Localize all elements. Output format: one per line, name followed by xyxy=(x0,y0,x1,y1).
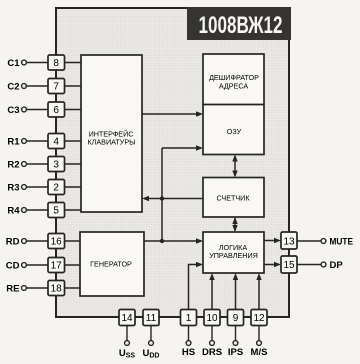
pin 1 / HS xyxy=(181,310,197,359)
pin 2 / R3 xyxy=(7,180,81,195)
svg-text:C3: C3 xyxy=(7,105,19,116)
wire: clock vertical riser x=162 xyxy=(161,148,163,241)
pin 7 / C2 xyxy=(7,79,81,94)
svg-text:СЧЕТЧИК: СЧЕТЧИК xyxy=(216,194,250,203)
svg-text:13: 13 xyxy=(283,237,295,248)
svg-text:7: 7 xyxy=(53,82,59,93)
svg-text:УПРАВЛЕНИЯ: УПРАВЛЕНИЯ xyxy=(209,251,258,260)
pin 6 / C3 xyxy=(7,102,81,117)
pin 5 / R4 xyxy=(7,203,81,218)
wire: pin 9 to control logic xyxy=(233,273,238,310)
svg-text:18: 18 xyxy=(51,284,63,295)
svg-text:9: 9 xyxy=(233,313,239,324)
IC title box 1008ВЖ12 xyxy=(187,7,291,40)
junction dot at riser/generator line xyxy=(160,239,164,243)
svg-text:АДРЕСА: АДРЕСА xyxy=(219,82,249,91)
svg-text:R2: R2 xyxy=(7,160,19,171)
svg-text:ОЗУ: ОЗУ xyxy=(227,127,242,136)
svg-text:C2: C2 xyxy=(7,82,19,93)
svg-text:CD: CD xyxy=(6,261,20,272)
svg-text:USS: USS xyxy=(119,348,136,360)
svg-text:1008ВЖ12: 1008ВЖ12 xyxy=(199,12,283,39)
svg-text:M/S: M/S xyxy=(251,347,268,358)
svg-text:11: 11 xyxy=(146,313,157,324)
svg-text:UDD: UDD xyxy=(143,348,160,360)
wire: control logic to pin 13 xyxy=(264,238,281,243)
block: control logic xyxy=(203,232,264,273)
svg-text:MUTE: MUTE xyxy=(330,237,354,248)
svg-text:3: 3 xyxy=(53,160,59,171)
wire: pin 12 to control logic xyxy=(256,273,261,310)
pin 12 / M/S xyxy=(251,310,268,359)
junction dot at riser/counter line xyxy=(160,196,164,200)
svg-text:10: 10 xyxy=(206,313,218,324)
pin 14 / Uss xyxy=(119,310,136,360)
svg-text:RD: RD xyxy=(6,237,20,248)
svg-text:6: 6 xyxy=(53,105,59,116)
svg-text:ГЕНЕРАТОР: ГЕНЕРАТОР xyxy=(90,260,132,269)
wire: riser to RAM xyxy=(162,145,203,150)
pin 4 / R1 xyxy=(7,134,81,149)
svg-text:R1: R1 xyxy=(7,137,20,148)
pin 18 / RE xyxy=(6,281,80,296)
block: generator xyxy=(80,232,144,296)
pin 10 / DRS xyxy=(202,310,222,359)
svg-text:IPS: IPS xyxy=(228,347,243,358)
svg-text:C1: C1 xyxy=(7,58,20,69)
svg-text:HS: HS xyxy=(182,347,195,358)
pin 15 / DP xyxy=(281,256,343,273)
svg-text:14: 14 xyxy=(121,313,133,324)
wire: counter to interface xyxy=(142,196,203,201)
wire: generator to control logic xyxy=(144,238,203,243)
wire: pin 10 to control logic xyxy=(209,273,214,310)
svg-text:16: 16 xyxy=(51,237,63,248)
pin 13 / MUTE xyxy=(281,232,353,249)
svg-text:R4: R4 xyxy=(7,206,20,217)
pin 3 / R2 xyxy=(7,157,81,172)
wire: pin 1 to control logic xyxy=(189,262,204,310)
svg-text:RE: RE xyxy=(6,284,19,295)
pin 17 / CD xyxy=(6,258,80,273)
wire: control logic to pin 15 xyxy=(264,262,281,267)
pin 16 / RD xyxy=(6,234,80,249)
wire: counter to control logic double arrow xyxy=(232,217,237,232)
svg-text:2: 2 xyxy=(53,183,59,194)
svg-text:17: 17 xyxy=(51,261,63,272)
pin 8 / C1 xyxy=(7,55,81,70)
svg-text:DP: DP xyxy=(330,260,344,271)
block: counter xyxy=(203,178,264,218)
block: keyboard interface U-KBD xyxy=(81,55,142,212)
block: address decoder + RAM xyxy=(203,54,264,155)
svg-text:КЛАВИАТУРЫ: КЛАВИАТУРЫ xyxy=(87,138,135,147)
pin 9 / IPS xyxy=(228,310,244,359)
svg-text:12: 12 xyxy=(253,313,265,324)
svg-text:1: 1 xyxy=(186,313,192,324)
svg-text:5: 5 xyxy=(53,206,59,217)
svg-text:15: 15 xyxy=(283,260,295,271)
svg-text:R3: R3 xyxy=(7,183,19,194)
svg-text:DRS: DRS xyxy=(202,347,222,358)
svg-text:8: 8 xyxy=(53,58,59,69)
svg-text:4: 4 xyxy=(53,137,59,148)
chip body outline xyxy=(56,8,289,317)
wire: interface to RAM xyxy=(142,111,203,116)
pin 11 / Udd xyxy=(143,310,160,360)
wire: RAM to counter double arrow xyxy=(232,155,237,178)
